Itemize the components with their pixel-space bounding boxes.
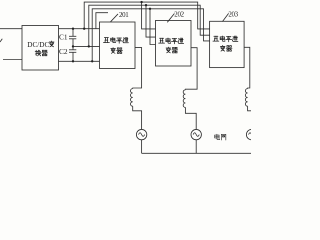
svg-text:203: 203 <box>228 11 238 18</box>
svg-text:DC/DC: DC/DC <box>27 41 49 49</box>
svg-text:202: 202 <box>174 11 184 18</box>
svg-text:C2: C2 <box>59 47 68 56</box>
svg-text:201: 201 <box>119 12 129 19</box>
svg-text:C1: C1 <box>59 32 68 41</box>
